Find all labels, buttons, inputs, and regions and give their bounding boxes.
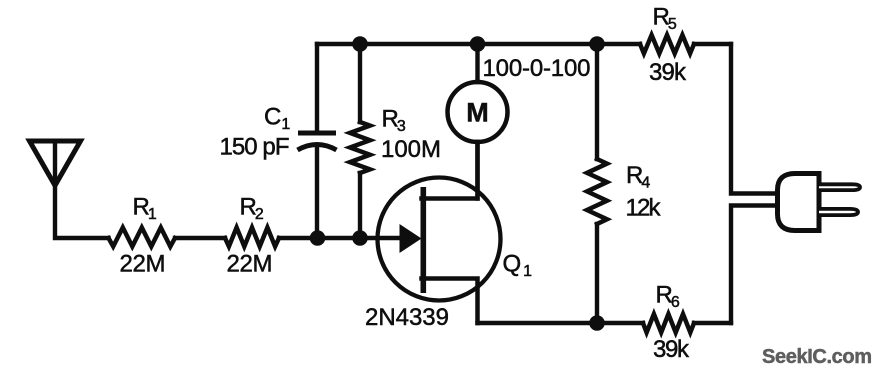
svg-text:R4: R4 (626, 162, 650, 192)
svg-text:22M: 22M (120, 251, 166, 278)
svg-text:R5: R5 (653, 4, 677, 34)
svg-text:150 pF: 150 pF (220, 134, 290, 161)
svg-text:39k: 39k (653, 336, 690, 363)
svg-text:M: M (466, 98, 489, 128)
svg-text:100-0-100: 100-0-100 (483, 55, 591, 82)
svg-text:SeekIC.com: SeekIC.com (762, 346, 872, 368)
svg-text:R6: R6 (656, 282, 680, 312)
svg-text:12k: 12k (626, 195, 662, 222)
svg-text:R2: R2 (240, 194, 264, 224)
svg-text:C1: C1 (264, 104, 290, 134)
svg-text:2N4339: 2N4339 (365, 304, 449, 331)
svg-text:100M: 100M (381, 136, 441, 163)
svg-text:R3: R3 (382, 106, 406, 136)
svg-text:22M: 22M (227, 251, 273, 278)
svg-text:R1: R1 (133, 194, 157, 224)
svg-text:Q1: Q1 (503, 251, 533, 281)
svg-text:39k: 39k (649, 59, 687, 86)
